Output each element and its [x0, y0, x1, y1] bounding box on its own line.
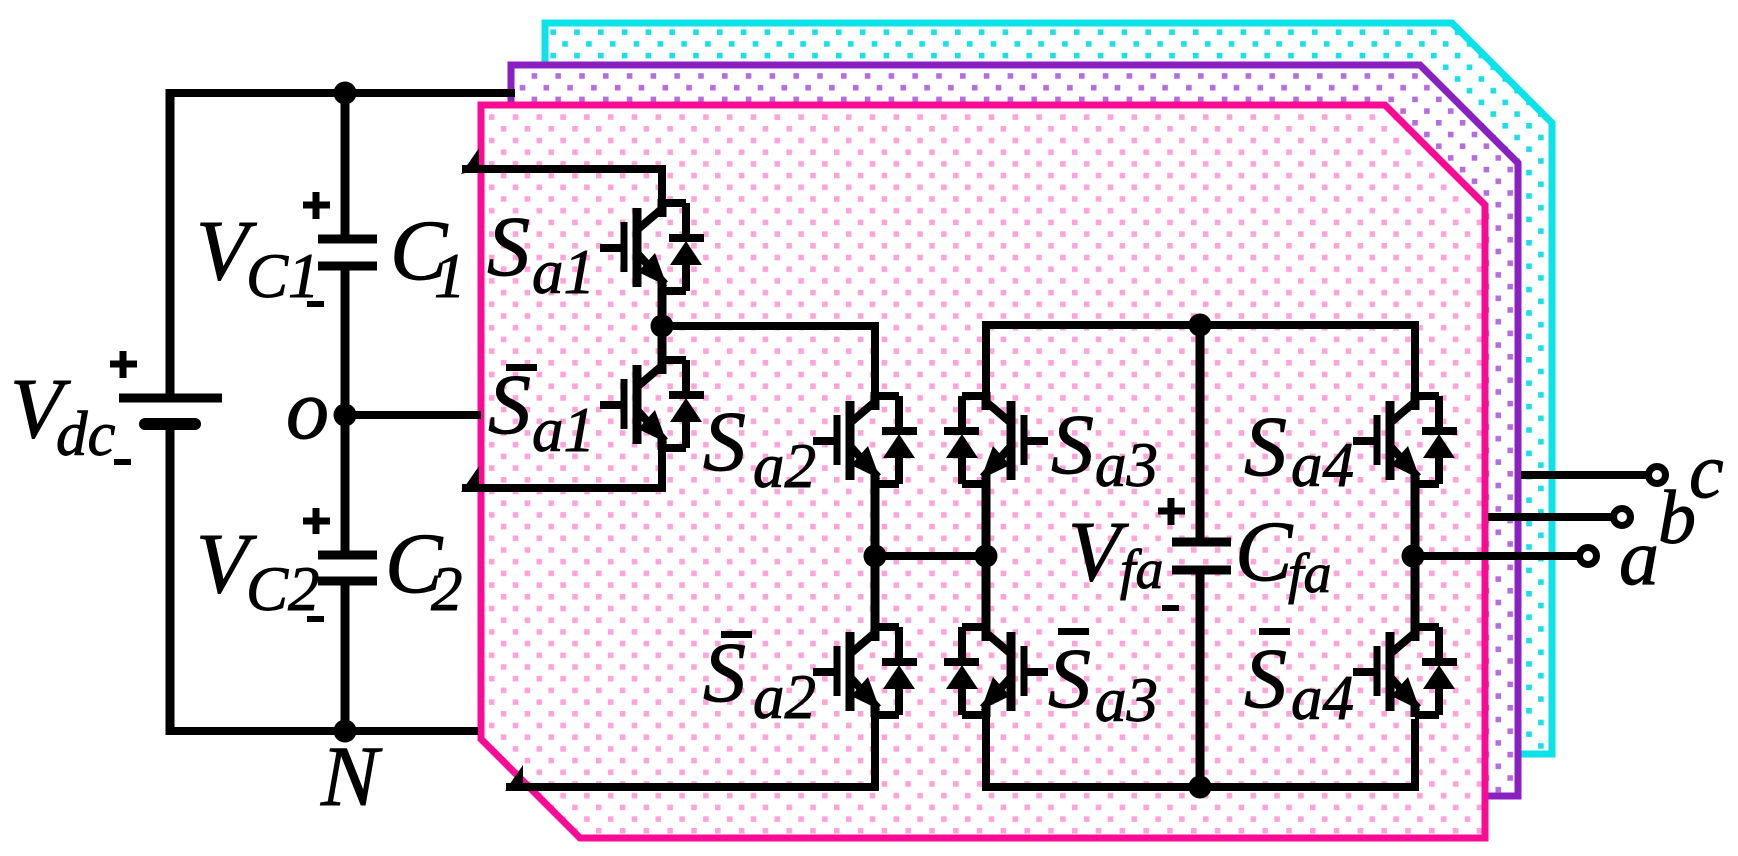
transistor Sa2 [813, 392, 917, 486]
wire flying cap lower [1196, 570, 1205, 787]
label C1 [390, 202, 466, 311]
wire mid node to Sa2bar [871, 556, 880, 631]
transistor Sa3 mirrored [944, 392, 1048, 486]
label Vfa [1068, 503, 1164, 601]
svg-text:S: S [1244, 398, 1287, 494]
svg-text:2: 2 [431, 554, 463, 624]
svg-text:a1: a1 [532, 395, 595, 465]
wire mid node to Sa3bar [982, 556, 991, 631]
label Sa3 [1051, 396, 1158, 500]
wire C1 to node o [341, 266, 350, 419]
svg-text:a2: a2 [753, 431, 816, 501]
label Vdc [10, 360, 116, 469]
transistor Sa2bar [813, 623, 917, 717]
phase b panel (purple, middle) [511, 65, 1518, 796]
terminal b [1614, 509, 1631, 526]
label Vfa minus [1162, 605, 1179, 611]
label Sa3bar [1048, 628, 1158, 735]
label C2 [385, 515, 463, 624]
svg-text:fa: fa [1288, 543, 1332, 605]
wire Sa1 emitter to node [658, 289, 667, 362]
wire flying cap upper [1196, 325, 1205, 542]
wire node o to C2 [341, 411, 350, 551]
arrow dc+ into panel [461, 148, 479, 174]
svg-text:C1: C1 [246, 241, 320, 311]
node phase a output [1402, 545, 1425, 568]
wire Sa1bar emitter to o arrow [462, 446, 662, 488]
label Vfa plus [1158, 498, 1185, 525]
label Cfa [1235, 503, 1332, 605]
label Vdc minus [114, 459, 131, 465]
label VC2 plus [303, 508, 330, 534]
arrow o into panel [461, 466, 479, 492]
transistor Sa4bar [1353, 623, 1457, 717]
capacitor C2 [318, 555, 377, 581]
node junction top rail [334, 82, 357, 105]
capacitor C1 [318, 239, 377, 266]
svg-text:S: S [703, 393, 746, 489]
svg-text:S: S [1051, 396, 1094, 492]
transistor Sa4 [1353, 392, 1457, 486]
wire capacitor branch upper [341, 93, 350, 239]
label VC1 plus [303, 192, 330, 219]
node flying cap top [1189, 314, 1212, 337]
wire mid junction Sa2-Sa3 [875, 552, 986, 560]
svg-text:a4: a4 [1291, 430, 1354, 500]
terminal a [1580, 548, 1597, 565]
transistor Sa1 [600, 199, 704, 293]
wire top dc+ rail [166, 89, 515, 97]
svg-text:C2: C2 [246, 554, 320, 624]
phase c panel (cyan, back) [545, 23, 1552, 754]
svg-text:c: c [1689, 427, 1724, 514]
label VC2 [196, 515, 320, 624]
wire node o rail [345, 411, 481, 419]
terminal c [1649, 467, 1666, 484]
arrow N into panel [505, 765, 523, 791]
label Sa4bar [1244, 628, 1354, 733]
label Sa4 [1244, 398, 1354, 500]
svg-text:a2: a2 [753, 662, 816, 732]
wire output c [1521, 471, 1650, 479]
svg-text:o: o [286, 361, 329, 457]
wire output a [1413, 552, 1588, 560]
node o junction [334, 404, 357, 427]
battery source Vdc [119, 398, 222, 424]
wire Sa2bar emitter to N arrow [506, 713, 875, 787]
label VC1 minus [307, 301, 324, 307]
label VC2 minus [307, 616, 324, 622]
wire battery positive lead [166, 89, 175, 398]
wire bottom N rail [166, 727, 478, 735]
svg-text:a4: a4 [1291, 663, 1354, 733]
wire Sa2 emitter to mid node [871, 482, 880, 556]
label VC1 [196, 202, 320, 311]
svg-text:S: S [1244, 630, 1287, 726]
svg-text:a: a [1619, 514, 1659, 602]
node N junction [334, 720, 357, 743]
svg-text:a1: a1 [532, 237, 595, 307]
label Vdc plus [110, 351, 137, 378]
wire Sa3bar to bottom rail [986, 713, 1415, 787]
label Sa1bar [488, 356, 595, 465]
node Sa3 mid junction [975, 545, 998, 568]
wire output b [1488, 513, 1622, 521]
svg-text:1: 1 [434, 241, 466, 311]
wire Sa3 top rail [986, 325, 1415, 400]
label Sa2bar [703, 624, 816, 732]
wire junction to Sa2 [662, 326, 875, 400]
transistor Sa1bar [600, 356, 704, 450]
wire C2 to N rail [341, 581, 350, 731]
node Sa1/Sa1bar junction [651, 315, 674, 338]
capacitor Cfa [1172, 542, 1231, 570]
svg-text:a3: a3 [1095, 430, 1158, 500]
svg-text:S: S [487, 198, 530, 294]
wire battery negative lead [166, 424, 175, 735]
wire dc+ rail to Sa1 collector [462, 169, 662, 207]
svg-text:N: N [320, 728, 383, 824]
phase a panel (magenta, front) [481, 105, 1485, 838]
node flying cap bottom [1189, 776, 1212, 799]
label Sa1 [487, 198, 595, 307]
svg-text:dc: dc [56, 399, 116, 469]
wire Sa4 emitter to output node [1411, 482, 1420, 631]
transistor Sa3bar mirrored [944, 623, 1048, 717]
svg-text:S: S [703, 624, 746, 720]
svg-text:a3: a3 [1095, 665, 1158, 735]
svg-text:S: S [1048, 630, 1091, 726]
svg-text:fa: fa [1120, 539, 1164, 601]
svg-text:C: C [1235, 503, 1294, 599]
wire Sa3 emitter to mid node [982, 482, 991, 556]
label Sa2 [703, 393, 816, 501]
node Sa2 mid junction [864, 545, 887, 568]
